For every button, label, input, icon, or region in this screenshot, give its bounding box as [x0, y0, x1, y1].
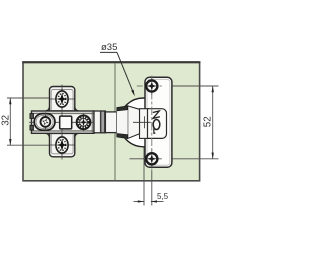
svg-text:52: 52	[203, 116, 214, 127]
svg-text:32: 32	[1, 115, 12, 126]
svg-text:5,5: 5,5	[157, 192, 169, 201]
svg-text:ø35: ø35	[101, 42, 117, 53]
